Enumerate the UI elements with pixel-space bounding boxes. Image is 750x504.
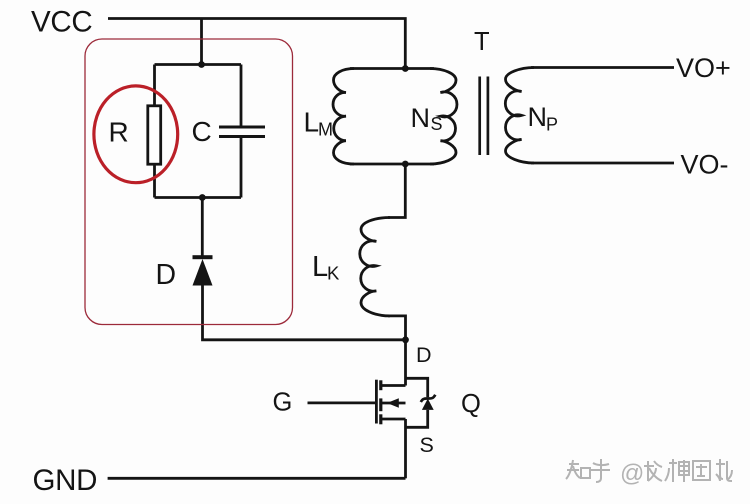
capacitor C (219, 127, 265, 137)
wire drain contact (381, 384, 406, 387)
highlight box snubber (85, 39, 293, 325)
svg-text:N: N (411, 103, 431, 133)
transistor Q1 gate plate (375, 380, 378, 424)
wire R branch top (153, 65, 156, 105)
junction node drain (402, 336, 409, 343)
wire source to body-diode bottom (406, 410, 428, 427)
junction node snubber top (198, 61, 205, 68)
transistor Q1 body arrow (387, 398, 399, 407)
wire VCC to snubber top (200, 19, 203, 65)
winding NS (430, 69, 457, 165)
svg-text:T: T (474, 28, 490, 56)
wire drain to body-diode top (406, 378, 428, 397)
transistor Q1 channel bars (379, 380, 382, 424)
wire snubber loop bottom (155, 196, 242, 199)
wire diode anode to snubber return (203, 285, 406, 340)
diode D cathode bar (193, 255, 213, 259)
wire GND rail (108, 477, 406, 480)
svg-text:K: K (327, 263, 340, 284)
svg-text:VO-: VO- (681, 150, 729, 180)
wire snubber loop top (155, 63, 242, 66)
svg-text:D: D (416, 343, 432, 367)
wire LK bottom to drain node (388, 316, 406, 340)
resistor R (148, 106, 161, 164)
svg-text:M: M (318, 120, 333, 140)
svg-text:D: D (156, 259, 177, 291)
svg-text:L: L (312, 251, 328, 283)
watermark zhihu (566, 459, 732, 482)
svg-text:N: N (528, 102, 548, 132)
svg-text:P: P (546, 115, 558, 135)
junction node snubber bottom (199, 194, 206, 201)
diode D triangle (193, 259, 213, 286)
svg-text:S: S (431, 114, 443, 134)
highlight ellipse around R (94, 86, 178, 183)
wire loop bottom to diode (201, 198, 204, 257)
wire racetrack top (350, 67, 434, 70)
svg-text:VO+: VO+ (676, 53, 731, 83)
svg-text:R: R (109, 117, 129, 148)
wire source contact (381, 418, 406, 421)
wire racetrack bottom (350, 163, 434, 166)
wire drain node down (404, 340, 407, 386)
winding LM (333, 69, 354, 165)
wire source down to GND (404, 419, 407, 478)
wire NS bottom to LK (388, 164, 405, 218)
svg-text:G: G (273, 389, 293, 417)
wire C branch bottom (240, 137, 243, 198)
svg-text:S: S (420, 433, 434, 457)
wire VO- (531, 162, 674, 165)
wire R branch bottom (153, 166, 156, 198)
winding NP (505, 68, 534, 164)
transformer core (480, 77, 488, 156)
wire VO+ (531, 66, 674, 69)
body diode triangle (422, 399, 434, 410)
junction node transformer bottom (402, 161, 409, 168)
wire C branch top (240, 65, 243, 128)
svg-text:GND: GND (33, 464, 98, 497)
wire body contact (382, 402, 406, 405)
svg-text:L: L (304, 107, 320, 138)
inductor LK (360, 218, 390, 316)
wire gate G (308, 401, 376, 404)
svg-text:VCC: VCC (31, 6, 92, 39)
wire VCC rail (108, 19, 405, 69)
svg-text:Q: Q (461, 390, 481, 418)
body diode zener bar (421, 395, 436, 402)
junction node transformer top (402, 65, 409, 72)
svg-text:C: C (192, 116, 212, 147)
svg-text:@: @ (620, 460, 644, 487)
